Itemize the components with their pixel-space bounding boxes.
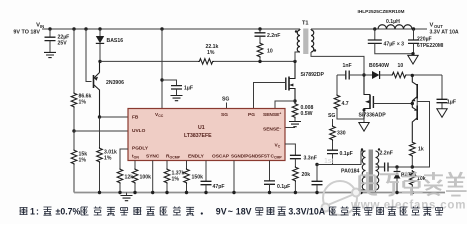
svg-text:47pF: 47pF	[213, 184, 225, 190]
transformer T2 PA0184 secondary	[376, 151, 379, 190]
wire 1k to coupling node	[411, 157, 413, 167]
svg-text:1%: 1%	[79, 100, 87, 106]
transformer T2 PA0184 primary	[362, 151, 365, 190]
ground input cap	[44, 52, 56, 57]
wire 12k to rail	[119, 184, 121, 193]
svg-text:2.2nF: 2.2nF	[267, 33, 280, 39]
wire tON to 100k	[134, 161, 136, 169]
svg-text:1%: 1%	[104, 156, 112, 162]
svg-text:10: 10	[398, 63, 404, 69]
wire 1nF to B0540W	[350, 74, 372, 76]
junction VOUT node	[412, 27, 415, 30]
svg-text:2.2nF: 2.2nF	[380, 151, 393, 157]
junction VCC node	[160, 78, 163, 81]
phase dot T2 secondary	[378, 148, 380, 150]
wire switch node to primary bottom	[295, 52, 300, 61]
transformer T1 secondary winding	[311, 30, 314, 52]
svg-text:SGND/PGND: SGND/PGND	[231, 154, 259, 159]
junction BAT54/rail	[395, 191, 398, 194]
inductor L1 0.1uH	[378, 25, 412, 29]
svg-text:OSCAP: OSCAP	[212, 154, 230, 160]
svg-text:1µF: 1µF	[184, 86, 193, 92]
wire SFST to 0.1uF	[269, 161, 271, 181]
svg-text:U1: U1	[198, 125, 205, 131]
resistor 15k 1%	[71, 149, 77, 165]
resistor 4.7	[334, 94, 340, 110]
svg-text:330: 330	[337, 131, 346, 137]
junction 10k/rail	[411, 191, 414, 194]
transistor Q1 2N3906 PNP	[93, 75, 95, 88]
junction VIN/BAS16	[98, 27, 101, 30]
junction 1.37k/rail	[165, 191, 168, 194]
ground sense resistor	[289, 122, 301, 127]
junction 3.01k/rail	[98, 191, 101, 194]
wire bottom ground rail	[74, 192, 445, 194]
wire VIN to BAS16 anode	[99, 29, 101, 36]
wire 22.1k to switch node	[214, 60, 295, 62]
wire SYNC to rail	[152, 161, 154, 193]
svg-text:1st: 1st	[324, 158, 333, 165]
wire SG stub secondary	[332, 119, 334, 125]
transformer T2 PA0184 core	[369, 150, 373, 192]
junction bias rail/Q4 collector	[411, 74, 414, 77]
transistor Q5 PNP driver	[416, 106, 418, 121]
svg-text:IHLP2525CZERR10M: IHLP2525CZERR10M	[358, 9, 405, 15]
junction VIN/86.6k	[72, 27, 75, 30]
svg-text:~: ~	[228, 207, 233, 217]
wire 1uF bottom lead	[176, 89, 178, 95]
svg-text:6TPE220MI: 6TPE220MI	[417, 43, 444, 49]
ground bias triangle	[437, 109, 447, 118]
resistor 12k	[117, 168, 123, 184]
svg-text:SG: SG	[222, 97, 229, 103]
wire 220uF bottom lead	[413, 44, 415, 54]
resistor 150k	[184, 168, 190, 184]
svg-text:Si7336ADP: Si7336ADP	[359, 113, 387, 119]
svg-text:100k: 100k	[140, 175, 152, 181]
diode D3 BAT54	[394, 172, 401, 178]
wire UVLO node to 15k	[73, 131, 75, 149]
capacitor 47uF x3	[368, 40, 382, 43]
wire Cin bottom lead	[49, 41, 51, 53]
svg-text:3.3V/10A: 3.3V/10A	[288, 207, 325, 217]
transistor Q4 NPN driver	[416, 84, 418, 99]
wire SENSE- to IC	[285, 127, 295, 129]
svg-text:3.3nF: 3.3nF	[304, 156, 317, 162]
junction VIN/Cin	[48, 27, 51, 30]
svg-text:2N3906: 2N3906	[106, 80, 124, 86]
junction emitter/BAS16/22.1k node	[98, 60, 101, 63]
wire cap down	[316, 165, 318, 182]
resistor 3.01k 1%	[97, 147, 103, 163]
wire 1nF left down	[336, 75, 338, 94]
wire PG to Q2 gate	[254, 83, 286, 110]
svg-text:OUT: OUT	[434, 24, 443, 29]
svg-text:9V: 9V	[216, 207, 227, 217]
svg-text:SENSE–: SENSE–	[263, 126, 281, 133]
svg-text:T1: T1	[302, 21, 309, 27]
wire 47pF to rail	[205, 185, 207, 193]
ground symbol bottom rail	[121, 196, 133, 201]
junction SENSE+ node	[293, 99, 296, 102]
junction source node	[363, 109, 366, 112]
capacitor 1nF	[346, 71, 349, 80]
diode D2 B0540W	[372, 71, 379, 79]
phase dot T1 primary	[295, 30, 297, 32]
junction SW secondary node	[362, 73, 365, 76]
junction VIN/snubber	[258, 27, 261, 30]
wire SFST cap to rail	[269, 184, 271, 192]
transistor Q3 Si7336ADP MOSFET	[369, 95, 371, 110]
junction PA0184/rail	[359, 191, 362, 194]
wire PA0184 primary low to rail	[361, 190, 366, 193]
resistor 86.6k 1%	[71, 92, 77, 108]
svg-text:FB: FB	[132, 115, 139, 121]
resistor 10 snubber	[257, 42, 263, 58]
junction VIN/Q1 base	[84, 27, 87, 30]
svg-text:1%: 1%	[79, 158, 87, 164]
wire VIN to 86.6k	[73, 29, 75, 92]
svg-text:0.1µF: 0.1µF	[277, 184, 290, 190]
junction BAT54 node	[395, 165, 398, 168]
wire B0540W to 10ohm	[380, 74, 391, 76]
wire BAT54 top lead	[396, 167, 398, 172]
wire 220uF top lead	[413, 29, 415, 40]
wire cap node to 0.1uF bottom	[317, 164, 333, 166]
svg-text:PGDLY: PGDLY	[132, 146, 149, 152]
junction driver emitters/gate	[411, 102, 414, 105]
svg-text:www.elecfans.com: www.elecfans.com	[350, 200, 466, 212]
wire 10ohm to 1uF bias	[407, 74, 442, 76]
wire cap to rail	[316, 185, 318, 193]
resistor 330	[330, 125, 336, 141]
svg-text:25V: 25V	[58, 41, 68, 47]
wire 4.7 top to 1nF	[337, 74, 345, 76]
svg-text:ENDLY: ENDLY	[188, 154, 205, 160]
svg-text:18V: 18V	[236, 207, 252, 217]
svg-text:220µF: 220µF	[417, 37, 432, 43]
wire bias to 1uF	[441, 75, 443, 99]
svg-text:0.1µH: 0.1µH	[386, 19, 400, 25]
wire OSCAP to 47pF	[205, 161, 207, 182]
junction coupling node	[411, 165, 414, 168]
wire 1uF to gnd	[441, 103, 443, 109]
transformer T1 core	[303, 29, 308, 55]
junction PA0184 cap node	[315, 163, 318, 166]
svg-text:1%: 1%	[172, 177, 180, 183]
wire rail to primary top	[299, 29, 301, 30]
svg-text:1nF: 1nF	[343, 63, 352, 69]
wire 4.7 to source gnd	[337, 110, 364, 123]
wire SG stub to IC	[226, 103, 228, 110]
wire VIN to Q1 base	[86, 29, 92, 82]
wire secondary top rail	[311, 28, 427, 30]
resistor 1.37k 1%	[164, 168, 170, 184]
wire ROCMP to 1.37k	[166, 161, 168, 170]
svg-text:47µF × 3: 47µF × 3	[384, 42, 405, 48]
watermark elecfans logo circle	[322, 158, 361, 215]
resistor 100k	[132, 168, 138, 184]
svg-text:1µF: 1µF	[447, 100, 456, 106]
junction SGND/rail	[232, 191, 235, 194]
wire 20k to rail	[294, 182, 296, 193]
ground output triangle	[408, 55, 418, 64]
phase dot T2 primary	[361, 148, 363, 150]
resistor 1k	[410, 141, 416, 157]
wire VIN to VCC pin	[161, 29, 163, 109]
capacitor 1uF VCC	[171, 86, 182, 89]
wire FB to IC	[100, 116, 129, 118]
junction 20k/rail	[294, 191, 297, 194]
ground VCC cap	[171, 96, 183, 101]
junction 12k/rail	[118, 191, 121, 194]
junction 150k/rail	[185, 191, 188, 194]
wire coupling node to 2.2nF	[388, 166, 412, 168]
svg-text:3.3V AT 10A: 3.3V AT 10A	[430, 29, 459, 35]
junction snubber/switch line	[258, 60, 261, 63]
junction output gnd node	[411, 52, 414, 55]
junction 47pF/rail	[204, 191, 207, 194]
svg-text:LT3837EFE: LT3837EFE	[184, 133, 212, 139]
capacitor 2.2nF coupling	[385, 163, 388, 172]
wire 47uF bottom to gnd node	[375, 44, 413, 54]
svg-text:0.1µF: 0.1µF	[340, 151, 353, 157]
diode D1 BAS16	[96, 36, 104, 43]
junction 100k/rail	[133, 191, 136, 194]
capacitor 0.1uF SFST	[264, 181, 275, 184]
capacitor C1 22uF 25V	[45, 37, 56, 40]
svg-text:SG: SG	[221, 112, 228, 118]
capacitor 47pF	[201, 181, 212, 184]
op-amp U1 LT3837EFE controller IC	[128, 109, 285, 161]
ground secondary source triangle	[359, 123, 369, 132]
wire 3.01k to ground rail	[99, 163, 101, 193]
wire VC to 3.3nF	[285, 144, 295, 155]
svg-text:BAS16: BAS16	[107, 38, 124, 44]
capacitor 1uF bias	[437, 99, 448, 102]
svg-text:9V TO 18V: 9V TO 18V	[13, 30, 40, 36]
wire ENDLY to 150k	[186, 161, 188, 170]
svg-text:±0.7%: ±0.7%	[56, 207, 81, 217]
svg-text:SG: SG	[328, 113, 335, 119]
wire bases to coupling node	[412, 102, 429, 168]
wire secondary top stub	[310, 29, 312, 30]
caption figure 1 text	[20, 208, 28, 215]
wire 0.1uF to PA0184 primary	[333, 151, 366, 165]
capacitor PA0184 primary	[312, 181, 323, 184]
svg-text:Si7892DP: Si7892DP	[301, 72, 325, 78]
junction SFST/rail	[268, 191, 271, 194]
svg-text:150k: 150k	[192, 175, 204, 181]
svg-text:1: 1	[30, 207, 35, 217]
capacitor 2.2nF snubber	[255, 33, 266, 36]
wire 10k to rail	[411, 186, 413, 193]
wire 10ohm to switch line	[259, 58, 261, 61]
svg-text:4.7: 4.7	[342, 101, 349, 107]
wire Q3 gate to driver	[373, 103, 412, 105]
wire snubber top lead	[259, 29, 261, 33]
wire BAS16 cathode to emitter node	[99, 44, 101, 62]
wire 1.37k to rail	[166, 184, 168, 193]
resistor 20k	[293, 166, 299, 182]
junction cap/rail	[315, 191, 318, 194]
svg-text::: :	[36, 207, 39, 217]
wire 330 to 0.1uF	[332, 141, 334, 150]
svg-text:IN: IN	[40, 24, 44, 29]
capacitor 3.3nF	[290, 155, 301, 158]
svg-text:SYNC: SYNC	[146, 154, 160, 160]
capacitor 0.1uF gate drive	[327, 150, 338, 153]
wire VCC node to 1uF	[162, 80, 177, 85]
wire 150k to rail	[186, 184, 188, 193]
svg-text:SENSE+: SENSE+	[263, 112, 281, 119]
wire PGDLY to 12k	[120, 149, 128, 168]
svg-text:1%: 1%	[207, 50, 215, 56]
transformer T1 primary winding	[297, 30, 300, 52]
phase dot T1 secondary	[314, 49, 316, 51]
wire secondary bottom to SW	[311, 52, 364, 75]
svg-text:SFST: SFST	[258, 154, 270, 159]
svg-text:1k: 1k	[418, 147, 424, 153]
wire PA0184 secondary low to rail	[375, 190, 377, 193]
resistor 0.008 0.5W sense	[292, 103, 298, 119]
svg-text:B0540W: B0540W	[369, 63, 389, 69]
resistor 22.1k 1%	[198, 59, 214, 65]
wire BAT54 to rail	[396, 179, 398, 193]
wire Q4/Q5 bases tie	[416, 99, 418, 106]
transistor Q2 Si7892DP MOSFET	[285, 78, 287, 91]
junction FB node	[98, 115, 101, 118]
watermark Chinese characters	[360, 172, 467, 196]
junction VIN/VCC feed	[160, 27, 163, 30]
svg-text:UVLO: UVLO	[132, 128, 146, 134]
wire UVLO to IC	[74, 130, 128, 132]
wire emitter node to 22.1k	[100, 60, 198, 62]
wire sense res to gnd	[294, 119, 296, 122]
wire snubber cap to 10ohm	[259, 36, 261, 42]
resistor 10 bias	[391, 72, 407, 78]
resistor 10k	[410, 170, 416, 186]
wire 15k to ground rail	[73, 165, 75, 193]
wire 2.2nF to PA0184	[376, 166, 385, 168]
svg-text:20k: 20k	[302, 172, 311, 178]
wire SENSE+ to IC	[275, 101, 295, 109]
junction switch node primary	[293, 60, 296, 63]
svg-text:PA0184: PA0184	[341, 169, 359, 175]
wire Cin top lead	[49, 29, 51, 37]
svg-text:V: V	[430, 23, 434, 29]
wire 3.3nF to 20k	[294, 159, 296, 166]
capacitor 220uF 6TPE220MI	[408, 40, 419, 43]
svg-text:10: 10	[267, 49, 273, 55]
wire FB node down	[99, 117, 101, 147]
junction UVLO node	[72, 129, 75, 132]
svg-text:0.5W: 0.5W	[301, 111, 313, 117]
wire rail to ground symbol	[126, 193, 128, 196]
wire 47uF top lead	[374, 29, 376, 40]
junction SYNC/rail	[151, 191, 154, 194]
svg-text:PG: PG	[248, 112, 255, 118]
wire SGND/PGND to rail	[233, 161, 235, 193]
wire 86.6k to UVLO node	[73, 108, 75, 131]
wire 100k to rail	[134, 184, 136, 193]
junction 47uF node	[373, 27, 376, 30]
wire VIN top rail	[42, 28, 300, 30]
